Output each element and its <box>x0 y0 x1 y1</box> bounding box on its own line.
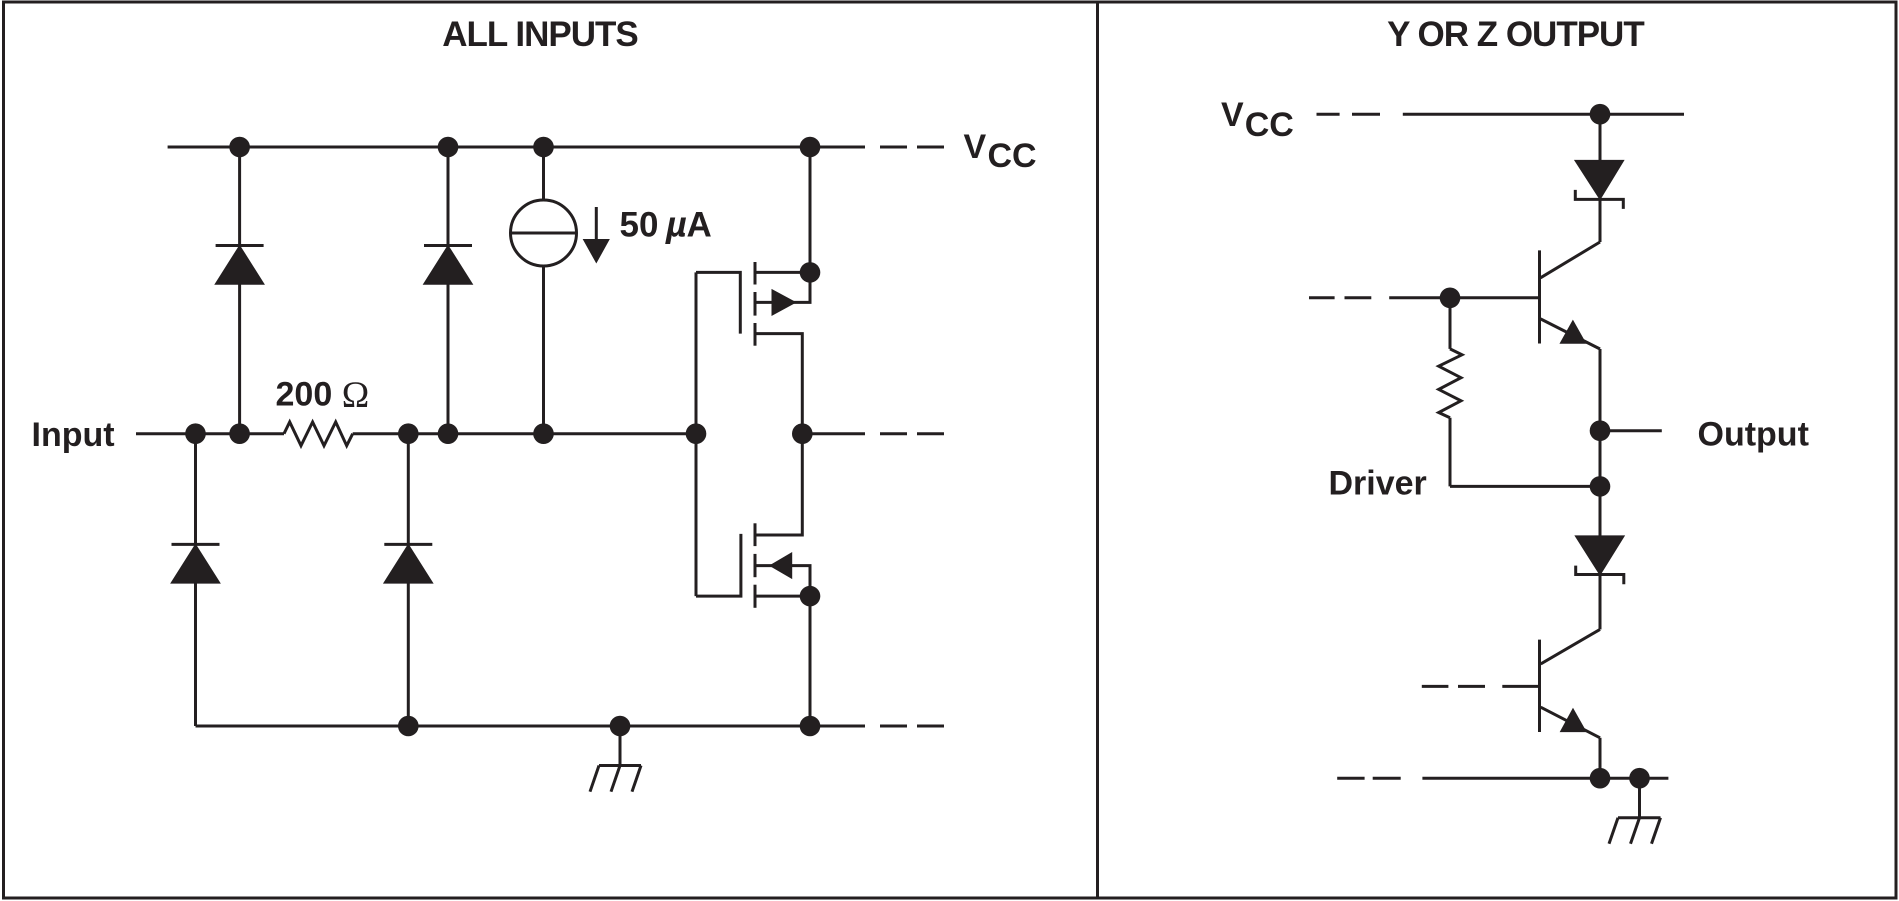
resistor R1 200 ohm <box>284 422 353 446</box>
diode D6 schottky <box>1576 536 1624 574</box>
wire input rail <box>136 432 284 435</box>
node dot VCC-D1 <box>229 137 250 158</box>
svg-text:200 Ω: 200 Ω <box>276 375 370 416</box>
diode D4 <box>384 543 432 546</box>
node dot VCC-Q1 <box>800 137 821 158</box>
current source I1 <box>511 200 577 266</box>
svg-text:CC: CC <box>988 137 1037 175</box>
node dot input-D1 <box>229 423 250 444</box>
wire VCC rail dashes <box>880 146 907 149</box>
node dot driver <box>1590 476 1611 497</box>
diode D1 anode wires <box>238 147 241 246</box>
wire output stub <box>1600 429 1662 432</box>
transistor Q3 NPN <box>1538 250 1541 343</box>
svg-text:Output: Output <box>1698 415 1809 453</box>
resistor R2 wires <box>1449 298 1452 349</box>
panel divider <box>1096 2 1099 898</box>
node dot input-D4 <box>398 423 419 444</box>
wire bottom rail left panel <box>196 725 866 728</box>
node dot Q2 source-bulk <box>800 586 821 607</box>
svg-text:µ: µ <box>665 203 687 244</box>
node dot bottom-D4 <box>398 716 419 737</box>
wire bottom rail right panel dashes <box>1337 777 1364 780</box>
svg-text:ALL INPUTS: ALL INPUTS <box>442 15 637 54</box>
diode D5 schottky <box>1575 161 1623 199</box>
transistor Q4 NPN base wire dashes <box>1422 685 1449 688</box>
svg-text:50: 50 <box>620 205 659 244</box>
transistor Q1 PMOS channel <box>754 262 757 285</box>
diode D4 wires <box>407 434 410 545</box>
resistor R2 <box>1439 349 1462 418</box>
svg-text:Driver: Driver <box>1329 464 1427 502</box>
node dot rail-Q4 emitter <box>1590 768 1611 789</box>
node dot Q1 source-bulk <box>800 262 821 283</box>
diode D3 <box>172 543 220 546</box>
transistor Q3 NPN base wire <box>1389 296 1539 299</box>
wire VCC rail left panel <box>168 146 865 149</box>
transistor Q4 NPN base wire <box>1502 685 1539 688</box>
node dot rail-ground <box>1629 768 1650 789</box>
node dot output right panel <box>1590 420 1611 441</box>
transistor Q3 NPN base wire dashes <box>1309 296 1335 299</box>
node dot output left panel <box>792 423 813 444</box>
wire Q3 emitter to output node <box>1599 349 1602 536</box>
node dot VCC-I1 <box>533 137 554 158</box>
node dot input-gates <box>686 423 707 444</box>
node dot input-D2 <box>438 423 459 444</box>
wire VCC to Q1 <box>809 147 812 272</box>
current source I1 wires <box>542 147 545 200</box>
node dot VCC-D2 <box>438 137 459 158</box>
node dot input-I1 <box>533 423 554 444</box>
wire Q2 source to ground rail <box>809 596 812 726</box>
transistor Q1 PMOS drain <box>755 334 802 434</box>
transistor Q1 PMOS bulk <box>755 272 810 302</box>
node dot VCC right panel <box>1590 104 1611 125</box>
diode D2 <box>424 244 472 247</box>
wire driver line <box>1450 485 1600 488</box>
wire Q4 emitter down <box>1599 738 1602 778</box>
wire VCC rail right panel <box>1403 113 1684 116</box>
wire VCC rail right panel dashes <box>1317 113 1340 116</box>
node dot Q3 base <box>1440 288 1461 309</box>
wire output stub left panel <box>802 432 865 435</box>
current arrow <box>595 207 598 240</box>
svg-text:A: A <box>687 205 712 244</box>
svg-text:CC: CC <box>1245 106 1294 144</box>
svg-text:Input: Input <box>32 416 115 454</box>
node dot input-D3 <box>185 423 206 444</box>
svg-text:V: V <box>964 128 987 166</box>
svg-text:Y OR Z OUTPUT: Y OR Z OUTPUT <box>1387 15 1644 54</box>
wire bottom rail right panel <box>1422 777 1668 780</box>
gate loop wire <box>695 272 698 596</box>
transistor Q2 NMOS drain <box>755 434 802 535</box>
diode D1 <box>216 244 264 247</box>
ground G2 <box>1638 778 1641 818</box>
diode D3 wires <box>194 434 197 545</box>
transistor Q2 NMOS bulk <box>755 566 810 597</box>
transistor Q2 NMOS source <box>755 595 810 598</box>
node dot bottom-ground <box>610 716 631 737</box>
diode D2 wires <box>447 147 450 246</box>
transistor Q1 PMOS source <box>755 271 810 274</box>
wire D6 to Q4 <box>1599 575 1602 630</box>
transistor Q4 NPN <box>1538 640 1541 732</box>
svg-text:V: V <box>1221 96 1244 134</box>
node dot bottom-Q2 <box>800 716 821 737</box>
transistor Q1 PMOS gate <box>696 272 740 333</box>
transistor Q2 NMOS channel <box>754 523 757 546</box>
ground G1 <box>619 726 622 766</box>
transistor Q2 NMOS gate <box>696 534 741 596</box>
diode D5 schottky wires <box>1599 114 1602 160</box>
